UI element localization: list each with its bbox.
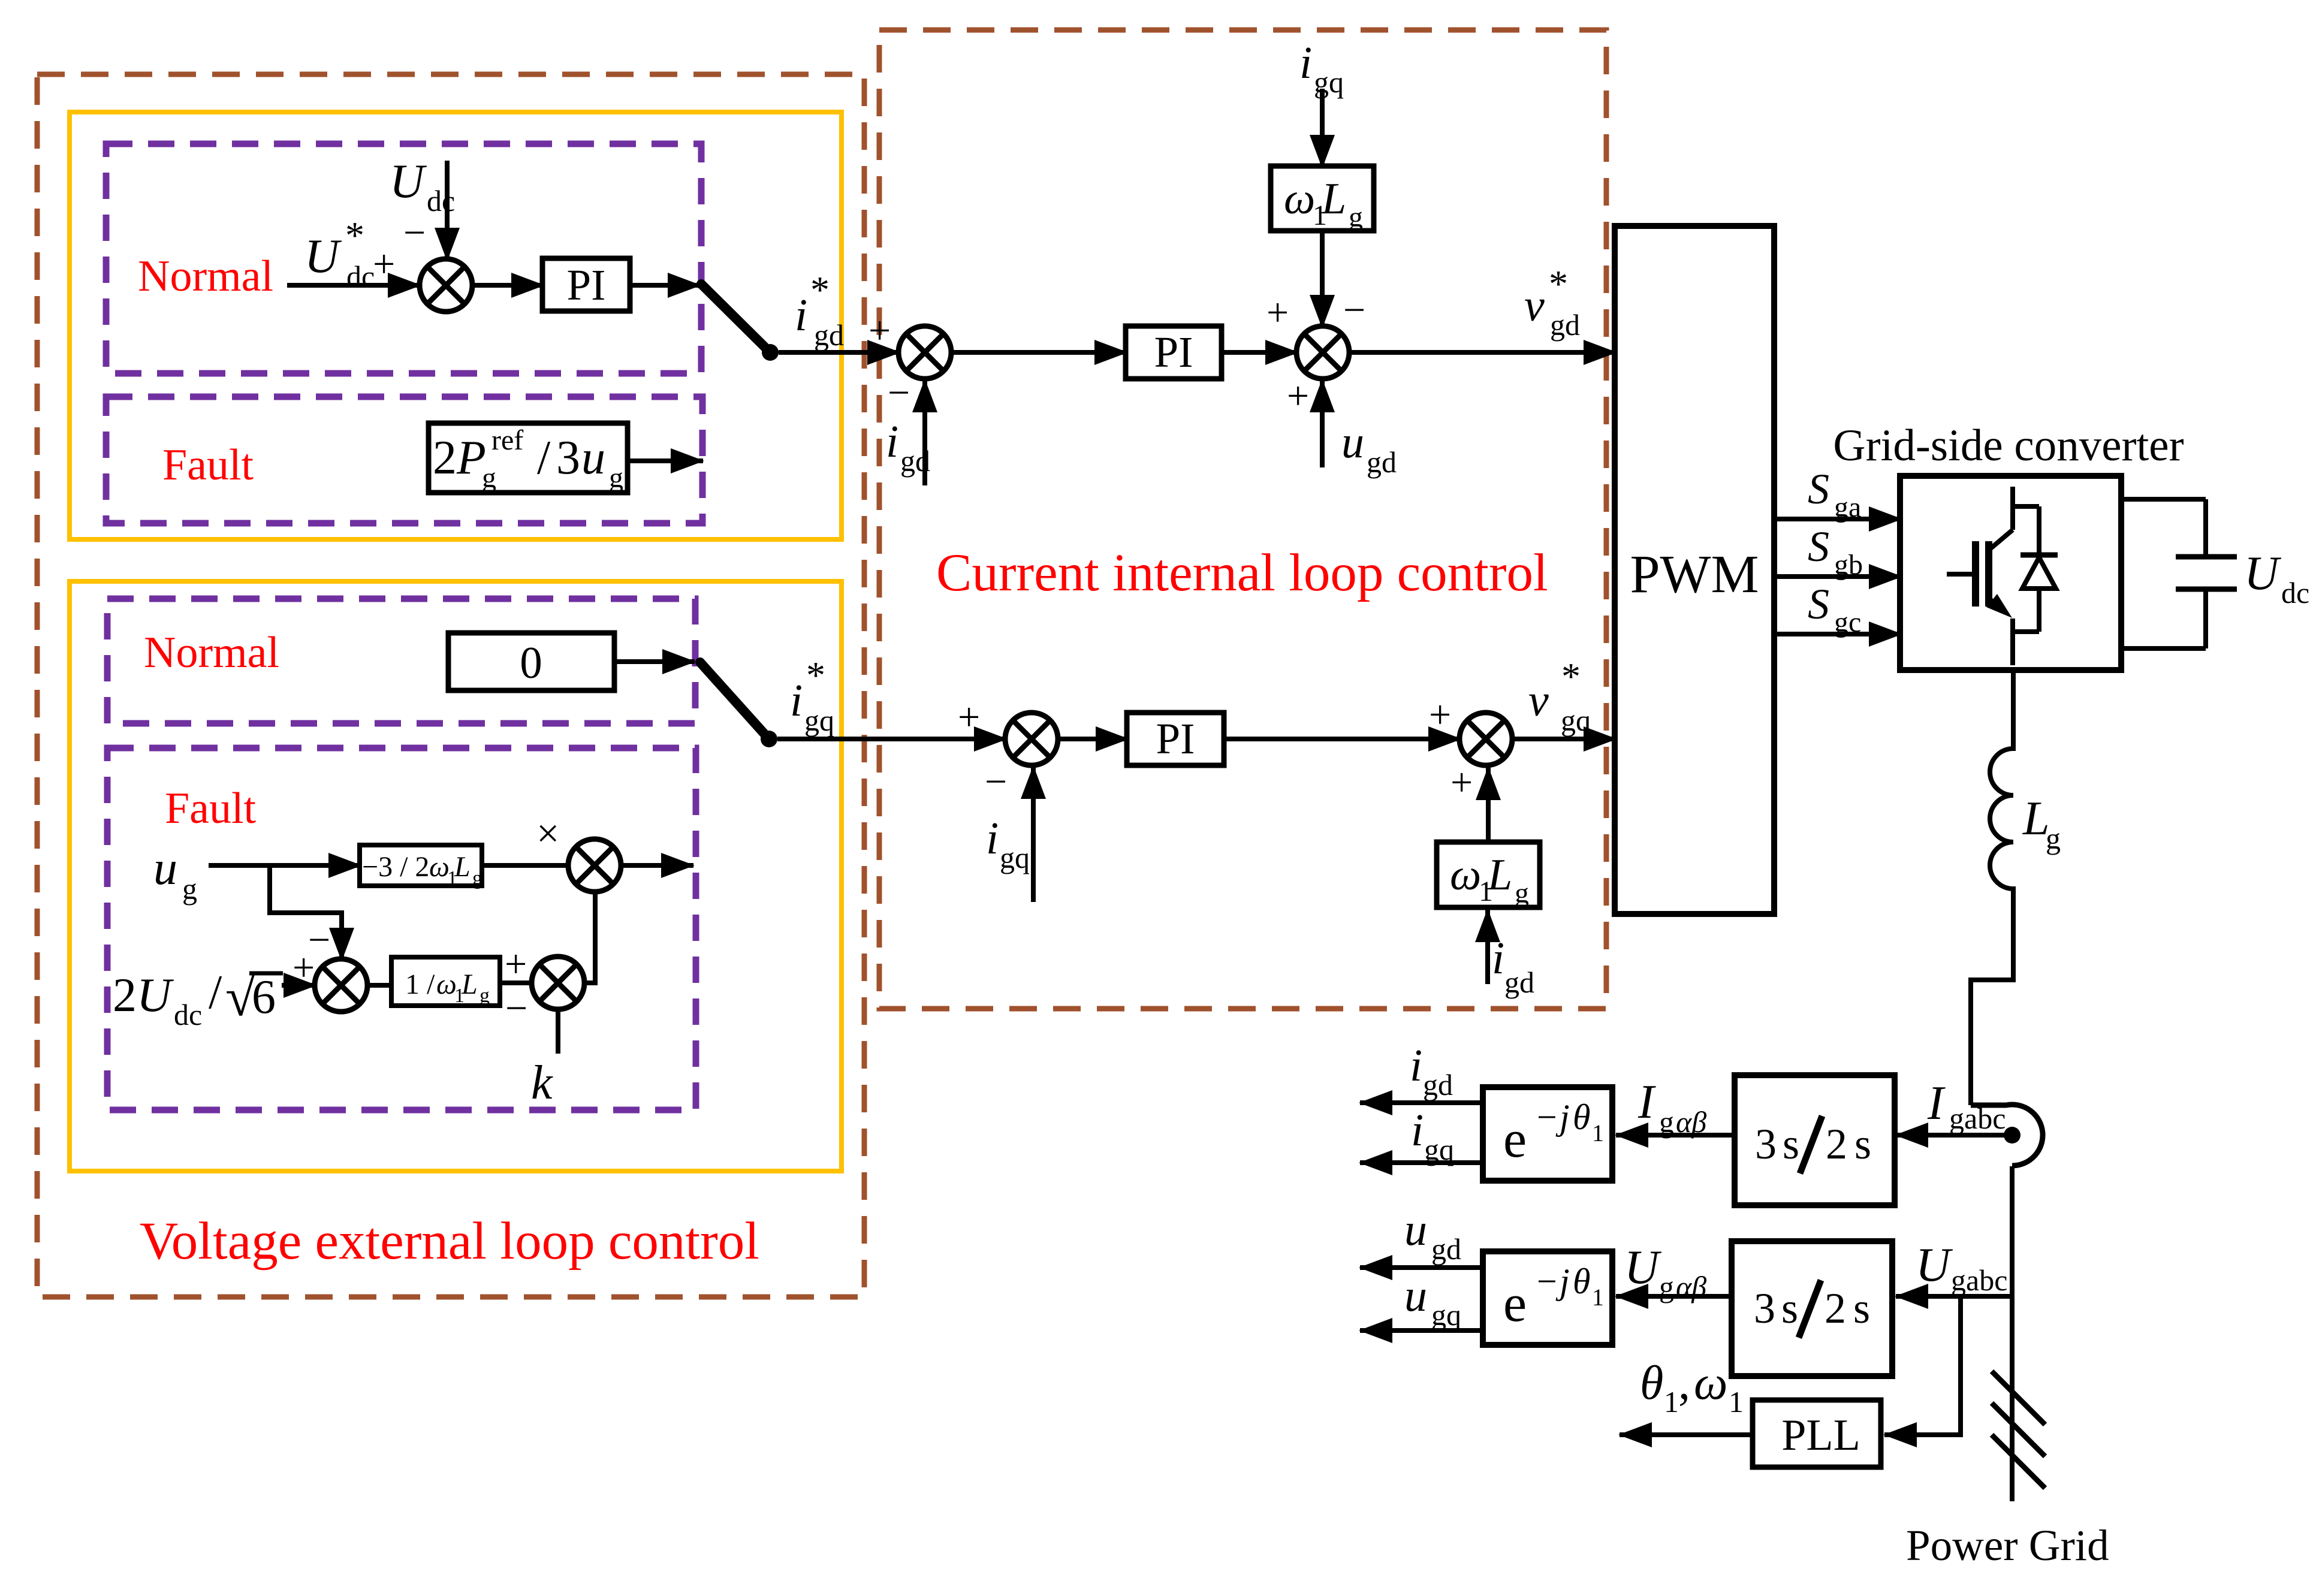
svg-text:g: g [2046, 822, 2061, 855]
wire igq feedback up-arrow into S4 [1031, 767, 1036, 902]
wire igd feedback up-arrow into S2 [922, 380, 927, 485]
svg-text:2: 2 [1826, 1120, 1847, 1168]
three-phase slash 2 [1992, 1403, 2045, 1456]
wire S2 to PI2 [951, 350, 1127, 355]
wire 1/w1Lg to summing junction SB [500, 980, 533, 985]
slash of 3s/2s voltage block [1799, 1280, 1821, 1338]
svg-text:U: U [1916, 1239, 1953, 1292]
svg-text:U: U [2244, 547, 2282, 600]
svg-text:L: L [461, 969, 478, 1000]
park transform block e-jtheta1 (voltage) [1483, 1251, 1612, 1345]
label igq measured [1411, 1105, 1454, 1166]
wire w1Lg up-arrow into S5 [1486, 768, 1491, 842]
capacitor C1 bottom lead [2203, 589, 2208, 648]
svg-text:Normal: Normal [144, 628, 279, 677]
wire igd* into summing junction S2 [779, 350, 900, 355]
svg-text:dc: dc [427, 184, 455, 218]
svg-text:3: 3 [1755, 1120, 1777, 1168]
svg-text:gc: gc [1834, 607, 1861, 638]
svg-text:θ: θ [1640, 1357, 1663, 1410]
block 1/w1Lg [391, 957, 500, 1006]
wire igd output [1360, 1100, 1483, 1105]
svg-text:i: i [1411, 1105, 1424, 1155]
capacitor C1 plates [2176, 554, 2237, 560]
svg-text:L: L [1321, 174, 1346, 224]
svg-text:−: − [505, 986, 527, 1030]
svg-text:*: * [1549, 263, 1568, 305]
svg-text:gq: gq [1431, 1298, 1461, 1332]
label Ugabc [1916, 1239, 2007, 1297]
svg-text:2: 2 [433, 432, 457, 484]
svg-text:gd: gd [1423, 1068, 1453, 1102]
svg-text:Fault: Fault [165, 784, 257, 833]
wire S3 to PWM (vgd*) [1349, 350, 1616, 355]
IGBT Q1 gate bar [1972, 541, 1979, 607]
wire SA to 1/w1Lg block [367, 983, 391, 988]
svg-text:2: 2 [1825, 1284, 1846, 1332]
3s/2s transform block (voltage) [1732, 1241, 1892, 1376]
summing junction S4 [1005, 713, 1058, 765]
svg-text:i: i [1299, 38, 1312, 88]
wire collector to diode D1 [2013, 504, 2039, 509]
svg-text:g: g [1659, 1105, 1674, 1139]
block w1Lg (q-axis decoupling) [1437, 842, 1540, 907]
diode D1 triangle [2022, 557, 2056, 589]
voltage external loop control outer brown dashed box [37, 74, 864, 1297]
svg-text:*: * [1561, 655, 1581, 698]
wire SB up into multiplier M1 [584, 892, 595, 983]
wire PI2 to summing junction S3 [1222, 350, 1298, 355]
svg-text:s: s [1854, 1120, 1871, 1168]
svg-text:+: + [505, 942, 527, 986]
svg-text:gq: gq [1424, 1133, 1454, 1166]
svg-text:1 /: 1 / [405, 969, 435, 1000]
IGBT Q1 emitter angle with arrow [1989, 599, 1997, 605]
svg-text:g: g [1515, 877, 1529, 909]
purple dashed box - Fault q-axis [107, 748, 696, 1110]
diode D1 upper lead [2037, 506, 2041, 556]
svg-text:gd: gd [1431, 1232, 1461, 1266]
svg-text:i: i [1410, 1040, 1422, 1091]
svg-text:−: − [1537, 1097, 1557, 1137]
summing junction S2 [898, 326, 951, 379]
svg-text:ω: ω [429, 851, 450, 883]
summing junction SA [315, 959, 367, 1012]
wire Udc* into S1 [287, 283, 420, 288]
svg-text:U: U [137, 969, 174, 1022]
current sensor hook [1971, 1105, 2043, 1166]
svg-text:s: s [1783, 1120, 1799, 1168]
label Sgb [1808, 523, 1863, 581]
svg-text:gq: gq [804, 704, 834, 737]
current internal loop control brown dashed box [879, 30, 1606, 1009]
svg-text:U: U [304, 230, 342, 283]
svg-text:Current internal loop control: Current internal loop control [936, 544, 1548, 602]
svg-text:2: 2 [113, 969, 137, 1022]
svg-text:g: g [480, 985, 490, 1007]
svg-text:θ: θ [1573, 1262, 1590, 1301]
label igd* reference [795, 268, 844, 352]
switch SW2 blade [700, 662, 769, 739]
svg-text:αβ: αβ [1676, 1270, 1706, 1304]
3s/2s transform block (current) [1735, 1075, 1895, 1205]
node dot SW2 output [761, 731, 777, 747]
svg-text:U: U [390, 155, 427, 208]
svg-text:+: + [1266, 291, 1289, 334]
wire ug branch down to summing junction SA [270, 865, 342, 960]
purple dashed box - Fault d-axis [106, 397, 702, 523]
wire Sga gate signal [1774, 517, 1901, 521]
label Udc (input to summing junction S1) [390, 155, 455, 218]
svg-text:+: + [373, 242, 395, 286]
overline of sqrt 6 [249, 972, 283, 976]
wire PI3 to summing junction S5 [1224, 737, 1461, 741]
wire 0-block to switch SW2 upper contact [614, 659, 695, 664]
label igq (decoupling input) [1299, 38, 1344, 99]
IGBT Q1 body bar [1985, 541, 1992, 607]
IGBT Q1 gate lead [1947, 572, 1972, 577]
node dot SW1 output [762, 344, 779, 361]
yellow box (d-axis reference selection) [70, 112, 842, 539]
svg-text:+: + [958, 695, 980, 739]
wire ugd output [1360, 1265, 1483, 1270]
svg-text:gd: gd [1367, 445, 1397, 479]
IGBT Q1 collector angle [1989, 530, 2013, 550]
svg-text:PI: PI [1156, 714, 1195, 763]
summing junction S3 [1296, 326, 1349, 379]
inductor Lg coil [1971, 670, 2013, 1105]
svg-text:L: L [1487, 850, 1512, 900]
label Ugalphabeta [1624, 1241, 1706, 1304]
label 2Udc/sqrt6 [113, 966, 276, 1031]
svg-text:S: S [1808, 465, 1829, 513]
wire M1 to switch SW2 lower contact [621, 863, 693, 868]
svg-text:i: i [795, 290, 807, 340]
wire PI1 to switch SW1 upper contact [630, 283, 700, 288]
wire PLL output theta1 omega1 [1620, 1432, 1753, 1437]
multiplier junction M1 [568, 839, 621, 892]
wire w1Lg down-arrow into S3 [1320, 231, 1325, 327]
wire Udc down-arrow into S1 [445, 161, 450, 260]
yellow box (q-axis reference selection) [70, 581, 842, 1171]
svg-text:Fault: Fault [162, 441, 254, 490]
block -3/2w1Lg [360, 845, 482, 886]
svg-text:Grid-side converter: Grid-side converter [1833, 421, 2184, 470]
svg-text:3: 3 [556, 432, 580, 484]
svg-text:−: − [985, 760, 1007, 804]
svg-text:ω: ω [1694, 1357, 1727, 1410]
svg-text:e: e [1503, 1275, 1527, 1333]
label Igabc [1927, 1077, 2006, 1135]
label Lg [2022, 792, 2061, 855]
svg-text:dc: dc [346, 260, 375, 293]
label theta1 comma omega1 [1640, 1357, 1744, 1419]
svg-text:i: i [986, 813, 999, 864]
svg-text:1: 1 [1592, 1120, 1604, 1147]
label igd input [1492, 933, 1534, 999]
svg-text:gq: gq [1561, 704, 1591, 737]
diode D1 lower lead [2037, 587, 2041, 632]
svg-text:e: e [1503, 1111, 1527, 1169]
node dot current sensor [2004, 1127, 2021, 1144]
diode D1 cathode bar [2021, 553, 2058, 558]
svg-text:v: v [1524, 280, 1545, 331]
PI controller PI3 box [1127, 713, 1224, 765]
svg-text:*: * [806, 654, 825, 696]
svg-text:1: 1 [1664, 1385, 1679, 1419]
svg-text:/: / [537, 432, 551, 484]
wire Sgb gate signal [1774, 574, 1901, 579]
svg-text:−: − [403, 211, 426, 255]
summing junction SB [532, 957, 584, 1009]
wire Igab to e-jtheta block [1616, 1133, 1735, 1138]
svg-text:g: g [472, 867, 482, 889]
svg-text:gd: gd [900, 444, 930, 478]
wire igq down-arrow into w1Lg block [1320, 89, 1325, 167]
grid-side converter box [1900, 476, 2121, 670]
wire ugq output [1360, 1328, 1483, 1333]
capacitor C1 top lead [2203, 499, 2208, 558]
wire grid main line [2010, 1166, 2015, 1501]
label igq feedback [986, 813, 1030, 874]
label Igalphabeta [1637, 1076, 1706, 1139]
svg-text:Voltage external loop control: Voltage external loop control [140, 1212, 759, 1271]
svg-text:k: k [531, 1057, 553, 1109]
svg-text:×: × [536, 810, 559, 856]
svg-text:gb: gb [1834, 549, 1863, 581]
wire converter top to capacitor [2121, 497, 2206, 502]
wire k input into SB [556, 1009, 560, 1054]
svg-text:ω: ω [1450, 850, 1481, 900]
wire Igabc to 3s/2s [1896, 1133, 2004, 1138]
svg-text:αβ: αβ [1676, 1105, 1706, 1139]
svg-text:ref: ref [491, 424, 523, 456]
label igd feedback [886, 417, 930, 478]
svg-text:dc: dc [2281, 576, 2309, 610]
IGBT Q1 emitter lead [2010, 619, 2015, 665]
svg-text:u: u [153, 842, 177, 895]
svg-text:S: S [1808, 580, 1829, 628]
label vgd* output [1524, 263, 1580, 342]
svg-text:1: 1 [1729, 1385, 1744, 1419]
svg-text:i: i [790, 675, 803, 726]
wire S1 to PI1 [472, 283, 544, 288]
svg-text:gd: gd [814, 318, 844, 352]
svg-text:g: g [1659, 1270, 1674, 1304]
svg-text:i: i [886, 417, 898, 467]
slash of 3s/2s current block [1800, 1116, 1822, 1173]
block w1Lg (d-axis decoupling) [1271, 166, 1374, 231]
svg-text:g: g [182, 872, 197, 906]
wire S4 to PI3 [1058, 737, 1128, 741]
svg-text:u: u [1404, 1271, 1427, 1321]
svg-text:PI: PI [567, 261, 606, 309]
purple dashed box - Normal q-axis [107, 599, 695, 723]
wire Ugab to e-jtheta block [1616, 1294, 1732, 1299]
svg-text:ω: ω [1284, 174, 1315, 224]
wire Sgc gate signal [1774, 632, 1901, 636]
label Sgc [1808, 580, 1861, 638]
wire Ugabc tap to 3s/2s [1896, 1294, 2012, 1299]
svg-text:U: U [1624, 1241, 1662, 1294]
wire 2Udc/sqrt6 into SA [282, 983, 316, 988]
svg-text:*: * [345, 214, 364, 257]
svg-text:u: u [581, 432, 605, 484]
label igd measured [1410, 1040, 1453, 1102]
wire emitter to diode D1 [2013, 629, 2039, 634]
label ug input [153, 842, 197, 906]
svg-text:+: + [1450, 761, 1473, 804]
svg-text:1: 1 [1592, 1284, 1604, 1311]
svg-text:I: I [1927, 1077, 1946, 1130]
svg-text:gq: gq [1000, 841, 1030, 874]
svg-text:0: 0 [520, 638, 542, 688]
svg-text:u: u [1404, 1205, 1427, 1255]
svg-text:−: − [1343, 288, 1365, 332]
wire S5 to PWM (vgq*) [1512, 737, 1616, 741]
svg-text:gd: gd [1504, 966, 1534, 999]
svg-text:dc: dc [174, 998, 202, 1031]
svg-text:s: s [1853, 1284, 1870, 1332]
svg-text:+: + [1429, 693, 1451, 737]
label igq* reference [790, 654, 834, 737]
label Udc dc-link voltage [2244, 547, 2309, 610]
park transform block e-jtheta1 (current) [1483, 1087, 1612, 1181]
svg-text:g: g [609, 462, 623, 494]
svg-text:+: + [1287, 374, 1309, 418]
svg-text:L: L [454, 851, 471, 883]
label vgq* output [1528, 655, 1591, 737]
svg-text:gabc: gabc [1949, 1102, 2006, 1135]
svg-text:Power Grid: Power Grid [1906, 1521, 2109, 1570]
svg-text:+: + [868, 309, 891, 352]
svg-text:PWM: PWM [1630, 545, 1759, 604]
wire ugd up-arrow into S3 [1320, 380, 1325, 467]
label ugq measured [1404, 1271, 1461, 1332]
summing junction S5 [1459, 713, 1512, 765]
svg-text:/: / [209, 966, 222, 1019]
svg-text:u: u [1341, 417, 1364, 467]
three-phase slash 1 [1992, 1371, 2045, 1425]
PWM block [1615, 226, 1774, 914]
svg-text:gabc: gabc [1951, 1263, 2007, 1297]
label ugd feedforward [1341, 417, 1397, 479]
svg-text:gd: gd [1550, 308, 1580, 342]
svg-text:6: 6 [252, 971, 276, 1024]
wire ug into -3/2w1Lg block [209, 863, 361, 868]
label ugd measured [1404, 1205, 1461, 1266]
three-phase slash 3 [1992, 1435, 2045, 1488]
svg-text:ω: ω [436, 969, 457, 1000]
wire igd up-arrow into w1Lg [1485, 910, 1490, 984]
purple dashed box - Normal d-axis [106, 144, 701, 373]
svg-text:g: g [482, 462, 496, 494]
wire igq output [1360, 1160, 1483, 1165]
svg-text:s: s [1781, 1284, 1798, 1332]
wire -3/2w1Lg block to multiplier M1 [482, 863, 568, 868]
block 2Pg_ref/3ug [429, 423, 628, 493]
wire fault block to switch SW1 lower contact [628, 458, 703, 463]
wire tap down to PLL [1884, 1296, 1961, 1435]
svg-text:Normal: Normal [138, 252, 273, 301]
svg-text:3: 3 [1754, 1284, 1775, 1332]
svg-text:I: I [1637, 1076, 1656, 1129]
svg-text:PI: PI [1154, 328, 1193, 376]
svg-text:gq: gq [1314, 65, 1344, 99]
summing junction S1 [420, 259, 472, 312]
PI controller PI2 box [1126, 326, 1222, 379]
label Sga [1808, 465, 1861, 523]
switch SW1 blade [701, 284, 770, 352]
svg-text:θ: θ [1573, 1097, 1590, 1137]
svg-text:PLL: PLL [1781, 1411, 1860, 1460]
wire igq* into summing junction S4 [777, 737, 1006, 741]
PI controller PI1 box [542, 258, 630, 311]
block 0 (q reference normal) [448, 633, 614, 690]
wire converter bottom to capacitor [2121, 646, 2206, 651]
label Udc* reference [304, 214, 375, 293]
svg-text:−: − [1537, 1262, 1557, 1301]
svg-text:ga: ga [1834, 491, 1861, 523]
IGBT Q1 collector lead [2010, 487, 2015, 530]
svg-text:i: i [1492, 933, 1504, 983]
svg-text:g: g [1349, 201, 1363, 233]
svg-text:−3 / 2: −3 / 2 [362, 851, 429, 883]
svg-text:−: − [888, 371, 910, 415]
PLL block [1753, 1400, 1881, 1467]
svg-text:v: v [1528, 675, 1549, 726]
svg-text:S: S [1808, 523, 1829, 571]
svg-text:,: , [1678, 1357, 1690, 1410]
svg-text:*: * [810, 268, 830, 311]
